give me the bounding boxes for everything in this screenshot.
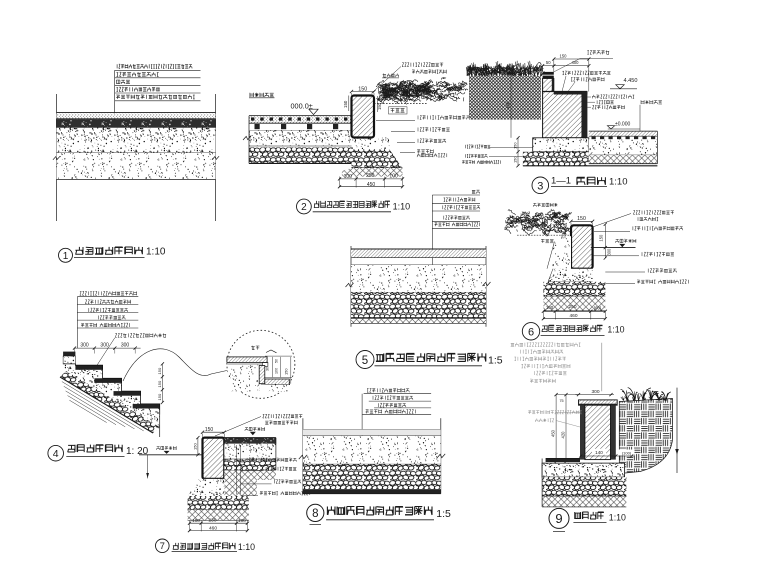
detail 8 break marks	[299, 455, 307, 459]
svg-text:3: 3	[537, 180, 543, 192]
detail 8 section edges	[302, 418, 304, 494]
detail 1 section edges	[56, 94, 58, 221]
detail 2 right leader labels	[418, 116, 470, 120]
detail 2 plan note	[250, 93, 274, 97]
detail 5 title	[376, 353, 486, 361]
svg-text:150: 150	[506, 66, 511, 73]
detail 6 title circle	[522, 323, 539, 340]
detail 8 concrete layer	[303, 436, 441, 464]
detail 2 curb right dim	[377, 96, 379, 112]
detail 6 planting scribble	[504, 209, 571, 236]
svg-text:420: 420	[561, 431, 566, 439]
svg-text:1:10: 1:10	[609, 176, 628, 187]
detail 5 stone paving section	[346, 190, 503, 368]
detail 6 bottom dims	[542, 311, 544, 320]
detail 2 planting soil line	[374, 103, 427, 105]
detail 3 center dim line	[510, 64, 512, 138]
detail 2 title circle	[297, 199, 312, 214]
detail 8 cement ground section	[299, 388, 451, 524]
detail 2 soil label box	[389, 107, 408, 114]
detail 4 anti-slip label	[115, 333, 166, 337]
detail 7 gravel base	[188, 496, 249, 510]
detail 8 title circle	[307, 504, 324, 521]
detail 2 compacted soil hatch	[342, 168, 403, 177]
detail 4 bubble leader curve	[123, 349, 227, 381]
svg-text:250: 250	[568, 304, 576, 310]
svg-text:300: 300	[121, 342, 130, 348]
detail 4 top dims	[74, 347, 141, 349]
detail 3 wall upper column	[543, 78, 554, 91]
detail 2 title	[314, 201, 390, 208]
detail 2 timber deck layer	[249, 116, 352, 123]
detail 2 shrub planting	[376, 77, 468, 104]
svg-text:300: 300	[100, 342, 109, 348]
svg-text:150: 150	[560, 54, 568, 59]
bubble tread stone	[227, 357, 267, 363]
detail 6 right height dim	[604, 224, 606, 258]
detail 7 soil hatch under road	[224, 470, 257, 496]
detail 8 title	[327, 506, 432, 515]
detail 5 section edges	[350, 246, 352, 327]
detail 4 detail bubble circle	[227, 330, 295, 398]
detail 6 right labels	[593, 214, 631, 228]
svg-text:150: 150	[192, 443, 197, 450]
detail 2 water label	[383, 74, 399, 78]
svg-text:1:10: 1:10	[238, 542, 255, 552]
detail 9 footing	[542, 463, 625, 477]
svg-text:100: 100	[344, 174, 353, 180]
detail 9 wall left facing	[580, 405, 585, 459]
detail 1 leader line	[114, 70, 116, 178]
detail 7 left hard junction label	[157, 446, 177, 450]
svg-text:150: 150	[513, 142, 518, 149]
detail 7 title	[173, 543, 236, 549]
detail 7 bottom dims	[189, 521, 191, 532]
detail 9 grass on soil	[621, 388, 671, 401]
detail 3 top labels	[587, 50, 609, 54]
detail 7 gravel under road	[224, 459, 276, 470]
detail 7 road base layer	[224, 444, 276, 459]
detail 1 vehicular road section	[53, 64, 219, 262]
detail 3 top dims	[543, 65, 589, 67]
detail 3 wall body	[543, 92, 582, 138]
detail 7 label leaders	[236, 445, 238, 494]
svg-text:1: 20: 1: 20	[126, 446, 149, 457]
detail 4 step risers	[63, 364, 160, 415]
svg-text:100: 100	[275, 368, 279, 374]
detail 3 soil block crosshatch	[469, 76, 541, 120]
detail 2 gravel layer	[249, 148, 352, 164]
detail 6 paving and planting junction	[504, 203, 688, 340]
detail 9 wall cap	[579, 400, 618, 405]
svg-text:1:10: 1:10	[393, 201, 411, 211]
svg-text:(100): (100)	[622, 450, 632, 455]
detail 4 gravel under steps	[60, 371, 160, 433]
svg-text:9: 9	[555, 511, 562, 526]
detail 7 asphalt layer	[224, 437, 276, 439]
detail 3 gravel base	[523, 152, 589, 166]
svg-text:150: 150	[157, 380, 162, 387]
detail 1 subgrade layer	[57, 153, 216, 180]
detail 7 left extension line	[147, 455, 149, 479]
detail 7 left height dim	[197, 438, 199, 455]
detail 9 gravel base	[542, 477, 626, 496]
detail 9 adjacent pavement	[546, 458, 580, 460]
detail 5 compacted soil band	[351, 319, 486, 324]
detail 6 compacted soil	[543, 296, 605, 311]
svg-text:5: 5	[362, 355, 368, 367]
detail 4 layer table	[80, 291, 137, 295]
detail 9 left gray labels	[528, 410, 582, 414]
detail 9 inner width dim	[592, 449, 606, 455]
detail 6 gravel base	[543, 282, 605, 297]
svg-text:1:5: 1:5	[488, 354, 503, 366]
detail 9 soil base	[542, 496, 626, 507]
svg-text:150: 150	[513, 156, 518, 163]
detail 7 granite curb	[203, 438, 225, 479]
detail 7 hard junction label right	[245, 427, 265, 431]
detail 1 title	[75, 247, 142, 254]
svg-text:1:10: 1:10	[607, 324, 624, 334]
svg-text:100: 100	[389, 173, 398, 179]
svg-text:300: 300	[606, 248, 611, 256]
bubble riser stone	[259, 366, 265, 384]
detail 3 footing	[533, 138, 589, 152]
detail 5 leader line	[431, 195, 433, 295]
bubble dims	[265, 355, 292, 357]
detail 5 break marks	[346, 283, 354, 287]
detail 2 curb height dim	[348, 96, 350, 112]
svg-text:7: 7	[160, 541, 165, 552]
svg-text:100: 100	[192, 518, 200, 523]
detail 9 wall right facing	[611, 405, 616, 459]
detail 2 granite curb	[352, 96, 375, 138]
svg-text:400: 400	[572, 60, 580, 65]
detail 2 timber deck and planting junction	[243, 63, 470, 214]
detail 2 left edge and break	[248, 116, 250, 164]
detail 3 right pavement	[589, 130, 658, 132]
detail 9 wall core	[585, 405, 611, 459]
detail 7 right labels	[247, 458, 296, 462]
svg-text:460: 460	[569, 313, 577, 319]
detail 1 break marks	[53, 156, 60, 160]
detail 4 steps	[48, 291, 295, 461]
detail 1 title circle	[59, 248, 73, 262]
svg-text:1:10: 1:10	[609, 512, 626, 522]
detail 2 top-right labels	[371, 67, 401, 94]
detail 3 title circle	[532, 177, 549, 194]
detail 2 deck surface line	[249, 115, 352, 117]
detail 2 concrete slab	[249, 130, 352, 146]
detail 6 title	[542, 325, 603, 331]
detail 4 title	[68, 445, 123, 453]
svg-text:300: 300	[591, 389, 599, 395]
detail 9 planter	[511, 343, 679, 532]
svg-text:8: 8	[312, 508, 318, 520]
detail 7 road curb detail	[139, 414, 310, 552]
svg-text:150: 150	[284, 368, 289, 375]
svg-text:30: 30	[266, 367, 270, 371]
bubble mortar line	[228, 363, 262, 365]
detail 3 left labels	[465, 145, 490, 149]
detail 9 note rows	[511, 343, 581, 347]
detail 7 top labels	[215, 417, 261, 437]
svg-text:100: 100	[546, 305, 554, 310]
detail 9 right break line	[676, 388, 678, 473]
svg-text:250: 250	[366, 173, 375, 179]
svg-text:300: 300	[80, 342, 89, 348]
detail 6 planting soil wedge	[547, 236, 571, 269]
detail 6 concrete under curb	[548, 269, 593, 282]
detail 1 asphalt wearing course (fine dots)	[57, 112, 216, 114]
detail 2 deck joists	[255, 124, 260, 129]
svg-text:150: 150	[577, 216, 586, 222]
detail 9 title circle	[549, 508, 569, 528]
svg-text:230: 230	[208, 518, 216, 524]
detail 9 left dims	[555, 395, 557, 462]
detail 9 title	[575, 512, 604, 519]
svg-text:150: 150	[343, 100, 348, 108]
detail 3 wall cap strips	[543, 72, 554, 75]
svg-text:±0.000: ±0.000	[615, 121, 630, 127]
detail 3 right-mid labels	[592, 95, 634, 99]
bubble joint label	[251, 346, 259, 350]
detail 6 left height dim	[564, 225, 566, 247]
detail 8 layer table	[367, 388, 409, 392]
detail 7 soil base	[188, 510, 249, 521]
detail 4 upper pavement block	[63, 352, 75, 356]
detail 4 vertical dim	[161, 364, 163, 403]
detail 3 section 1-1	[462, 50, 662, 193]
detail 5 title circle	[356, 351, 374, 369]
svg-text:150: 150	[599, 234, 604, 242]
detail 5 gravel layer	[351, 291, 486, 293]
detail 9 planting soil basket weave	[619, 399, 672, 474]
svg-text:1: 1	[63, 251, 69, 262]
svg-text:150: 150	[157, 393, 162, 400]
svg-text:450: 450	[367, 182, 376, 188]
svg-text:140: 140	[595, 450, 603, 455]
detail 1 dark asphalt binder layer	[57, 120, 216, 128]
svg-text:(60): (60)	[594, 306, 602, 311]
svg-text:50: 50	[275, 359, 279, 363]
svg-text:1—1: 1—1	[551, 175, 571, 186]
svg-text:450: 450	[506, 101, 511, 109]
detail 6 hard junction label	[616, 239, 636, 243]
svg-text:50: 50	[546, 60, 551, 65]
svg-text:460: 460	[209, 525, 217, 531]
detail 6 soil label	[541, 239, 554, 243]
detail 8 mortar layer	[303, 429, 441, 431]
bubble concrete	[228, 365, 260, 392]
detail 1 layer table	[117, 64, 192, 68]
svg-text:100: 100	[238, 518, 246, 523]
detail 6 granite curb	[571, 225, 593, 268]
svg-text:6: 6	[528, 327, 534, 339]
svg-text:4.450: 4.450	[624, 78, 638, 84]
svg-text:1:10: 1:10	[146, 247, 166, 258]
detail 3 wall right facing band	[582, 92, 587, 152]
detail 4 step slab base layers	[63, 364, 160, 427]
bubble lower tread	[265, 379, 290, 385]
detail 8 gravel layer	[303, 463, 441, 465]
svg-text:2: 2	[301, 202, 307, 213]
detail 7 concrete under curb	[188, 479, 225, 496]
detail 3 grass strip	[467, 63, 545, 76]
detail 4 subsoil hatch lines	[62, 382, 144, 431]
detail 3 left vertical dim	[517, 138, 519, 166]
detail 4 treads	[75, 365, 102, 370]
detail 2 bottom dims	[339, 177, 341, 188]
detail 6 top label	[533, 203, 557, 207]
detail 8 soil band	[303, 489, 441, 494]
detail 5 concrete layer	[351, 265, 486, 292]
detail 5 layer table	[472, 190, 480, 194]
detail 3 leveling label	[641, 100, 662, 104]
detail 5 stone layer	[351, 248, 486, 250]
svg-text:450: 450	[551, 429, 556, 437]
svg-text:1:5: 1:5	[436, 508, 451, 520]
detail 4 title circle	[48, 445, 64, 461]
svg-text:75: 75	[559, 399, 563, 403]
detail 7 title circle	[156, 539, 170, 553]
detail 1 cement stabilized layer	[57, 128, 216, 153]
svg-text:4: 4	[53, 448, 59, 460]
svg-text:150: 150	[157, 367, 162, 374]
